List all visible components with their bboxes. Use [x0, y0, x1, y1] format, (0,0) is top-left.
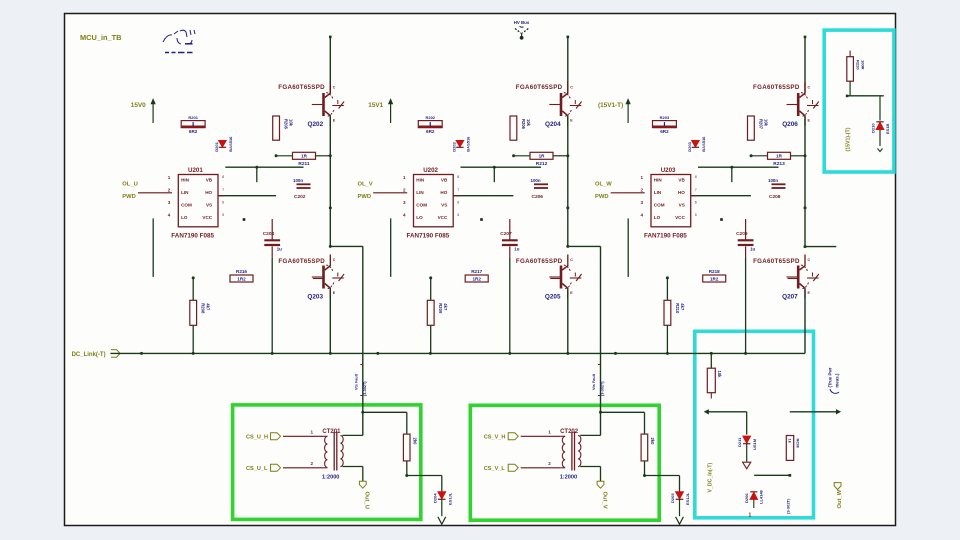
- svg-text:C: C: [570, 258, 573, 262]
- svg-text:4: 4: [403, 213, 406, 218]
- wire net arrow right: [790, 410, 840, 414]
- svg-text:1u: 1u: [277, 247, 282, 252]
- svg-text:10k: 10k: [289, 119, 294, 127]
- highlight box DC link sense region: [695, 331, 814, 518]
- svg-text:7: 7: [457, 188, 459, 192]
- wire HO: [691, 195, 751, 197]
- svg-text:10k: 10k: [526, 119, 531, 127]
- svg-text:U203: U203: [661, 167, 676, 174]
- transistor Q205: [516, 255, 582, 301]
- svg-text:1R2: 1R2: [237, 276, 246, 281]
- svg-text:MCU_in_TB: MCU_in_TB: [80, 33, 121, 42]
- svg-text:7: 7: [222, 188, 224, 192]
- svg-text:(15V1)-(T): (15V1)-(T): [846, 127, 852, 151]
- supply HV_BUS: [514, 20, 530, 39]
- svg-text:LIN: LIN: [181, 190, 189, 195]
- svg-text:C: C: [808, 86, 811, 90]
- svg-text:Q204: Q204: [545, 121, 561, 128]
- wire to clamp diode: [645, 476, 680, 492]
- svg-text:R217: R217: [471, 269, 482, 274]
- svg-text:VB: VB: [678, 177, 685, 182]
- svg-text:5: 5: [695, 213, 697, 217]
- svg-text:DC_Link(-T): DC_Link(-T): [72, 352, 106, 358]
- svg-text:1R2: 1R2: [472, 276, 481, 281]
- junction dot: [720, 218, 723, 221]
- svg-text:8: 8: [457, 175, 459, 179]
- wire net arrow left: [705, 410, 747, 435]
- svg-text:8: 8: [695, 175, 697, 179]
- wire: [846, 95, 884, 121]
- resistor burden CT202: [641, 434, 655, 477]
- highlight box CT201 region: [233, 405, 421, 520]
- svg-text:CS_V_L: CS_V_L: [484, 466, 506, 472]
- capacitor C209 vcc: [736, 219, 755, 353]
- svg-text:R211: R211: [298, 161, 310, 167]
- svg-text:3: 3: [168, 200, 171, 205]
- svg-text:4k7: 4k7: [206, 303, 211, 311]
- svg-text:R216: R216: [236, 269, 247, 274]
- supply 15V arrow: [131, 100, 155, 124]
- svg-text:2: 2: [548, 461, 551, 466]
- net stub labels: [354, 365, 367, 397]
- svg-text:100R: 100R: [861, 60, 866, 70]
- wire emitter Q206: [804, 117, 806, 247]
- svg-text:HO: HO: [440, 190, 447, 195]
- resistor R208: [190, 276, 211, 353]
- net flag Out_W: [834, 483, 843, 509]
- svg-text:D211: D211: [737, 437, 742, 447]
- svg-text:VCC: VCC: [202, 215, 212, 220]
- resistor R221: [707, 353, 722, 398]
- svg-text:100n: 100n: [768, 178, 778, 183]
- svg-text:D204: D204: [432, 493, 437, 503]
- svg-text:COM: COM: [181, 203, 192, 208]
- resistor R201: [181, 115, 205, 134]
- svg-text:R213: R213: [773, 161, 785, 167]
- svg-text:3: 3: [403, 200, 406, 205]
- net label PWD: [358, 193, 408, 200]
- svg-text:HIN: HIN: [654, 177, 663, 182]
- wire LIN input: [373, 192, 407, 194]
- svg-text:FAN7190 F085: FAN7190 F085: [644, 232, 687, 239]
- wire secondary bottom: [343, 467, 363, 482]
- svg-text:15V0: 15V0: [131, 102, 146, 109]
- svg-text:1: 1: [749, 513, 752, 519]
- svg-text:6: 6: [222, 200, 224, 204]
- svg-text:D202: D202: [451, 141, 456, 151]
- wire secondary top: [343, 434, 363, 436]
- svg-text:15V1: 15V1: [368, 102, 383, 109]
- junction: [804, 154, 807, 157]
- transistor Q207: [753, 255, 819, 301]
- svg-text:1: 1: [548, 430, 551, 435]
- svg-text:FGA60T65SPD: FGA60T65SPD: [278, 258, 325, 265]
- svg-text:R210: R210: [675, 303, 680, 314]
- capacitor C206 bootstrap: [531, 178, 549, 200]
- svg-text:LO: LO: [181, 215, 188, 220]
- svg-text:meas.): meas.): [835, 373, 840, 387]
- svg-text:CS_V_H: CS_V_H: [484, 435, 506, 441]
- resistor R220: [847, 51, 866, 96]
- resistor R205: [273, 116, 294, 140]
- svg-text:V_DC_In(-T): V_DC_In(-T): [708, 463, 714, 493]
- supply arrow down: [676, 517, 684, 524]
- svg-text:US1M: US1M: [752, 438, 757, 450]
- svg-text:1: 1: [311, 430, 314, 435]
- resistor R217 gate low: [465, 269, 561, 282]
- resistor R216 gate low: [230, 269, 324, 282]
- net flag Out_U: [359, 481, 369, 509]
- svg-text:D206: D206: [744, 493, 749, 503]
- transistor Q206: [753, 82, 819, 128]
- svg-text:CS_U_L: CS_U_L: [246, 466, 268, 472]
- diode D204: [432, 492, 452, 516]
- svg-text:4k7: 4k7: [680, 303, 685, 311]
- diode D205: [670, 492, 690, 516]
- svg-text:C209: C209: [736, 231, 748, 237]
- wire secondary bottom: [580, 467, 600, 482]
- wire secondary top: [580, 434, 600, 436]
- wire HO: [453, 195, 513, 197]
- svg-text:Q202: Q202: [308, 121, 324, 128]
- svg-text:Q203: Q203: [307, 294, 323, 301]
- wire HV bus drop channel 1: [329, 36, 332, 93]
- wire VB: [698, 166, 779, 183]
- svg-text:PWD: PWD: [122, 194, 136, 200]
- svg-text:6: 6: [695, 200, 697, 204]
- svg-text:R202: R202: [425, 115, 435, 120]
- svg-text:6: 6: [457, 200, 459, 204]
- net label PWD: [122, 193, 172, 200]
- svg-text:CS_U_H: CS_U_H: [246, 435, 268, 441]
- wire HO: [218, 195, 276, 197]
- svg-text:HIN: HIN: [416, 177, 425, 182]
- net flag Out_V: [597, 481, 607, 508]
- diode D212: [744, 489, 763, 518]
- resistor R213 gate: [750, 152, 805, 167]
- bus junction dots: [140, 352, 747, 355]
- svg-text:Out_W: Out_W: [837, 489, 843, 508]
- svg-text:Q205: Q205: [545, 294, 561, 301]
- svg-text:FGA60T65SPD: FGA60T65SPD: [516, 258, 563, 265]
- svg-text:C: C: [808, 258, 811, 262]
- wire COM stub: [627, 218, 629, 277]
- svg-text:R205: R205: [284, 119, 289, 130]
- op-amp U202 driver ic U202: [403, 167, 459, 239]
- svg-text:VCC: VCC: [438, 215, 448, 220]
- svg-text:2: 2: [640, 188, 643, 193]
- wire LIN input: [138, 192, 172, 194]
- svg-text:CT202: CT202: [560, 429, 579, 435]
- net stub labels: [592, 365, 605, 397]
- svg-text:VCC: VCC: [675, 215, 685, 220]
- svg-text:U202: U202: [423, 167, 438, 174]
- svg-text:C: C: [333, 258, 336, 262]
- svg-text:R207: R207: [758, 119, 763, 130]
- svg-text:1:2000: 1:2000: [560, 475, 577, 481]
- svg-text:COM: COM: [416, 203, 427, 208]
- wire DC link bus: [110, 352, 805, 354]
- op-amp U203 driver ic U203: [640, 167, 696, 239]
- svg-text:C202: C202: [294, 194, 306, 200]
- svg-text:VB: VB: [206, 177, 213, 182]
- svg-text:Q207: Q207: [782, 294, 798, 301]
- svg-text:R208: R208: [201, 303, 206, 314]
- svg-text:OL_V: OL_V: [358, 182, 373, 188]
- op-amp U201 driver ic U201: [168, 167, 224, 239]
- svg-text:C207: C207: [500, 231, 512, 237]
- diode D201: [214, 136, 233, 152]
- svg-text:LL4148: LL4148: [759, 489, 764, 504]
- svg-text:1:2000: 1:2000: [322, 475, 339, 481]
- svg-text:R212: R212: [536, 161, 548, 167]
- svg-text:LIN: LIN: [654, 190, 662, 195]
- supply 15V arrow: [598, 100, 630, 124]
- svg-text:(3-302T): (3-302T): [786, 498, 791, 514]
- wire emitter stub right: [804, 245, 837, 248]
- svg-text:R206: R206: [521, 119, 526, 130]
- capacitor C207 vcc: [500, 219, 519, 353]
- svg-text:R220: R220: [856, 60, 861, 70]
- svg-text:1R2: 1R2: [710, 276, 719, 281]
- wire VB: [225, 166, 303, 183]
- highlight box CT202 region: [470, 405, 659, 520]
- wire emitter Q204: [567, 117, 569, 247]
- net label DC_Link(-T): [72, 350, 121, 358]
- svg-text:100n: 100n: [531, 178, 541, 183]
- svg-text:2: 2: [168, 188, 171, 193]
- svg-text:8: 8: [222, 175, 224, 179]
- svg-text:FGA60T65SPD: FGA60T65SPD: [753, 84, 800, 91]
- svg-text:1u: 1u: [750, 247, 755, 252]
- junction dot: [480, 218, 483, 221]
- svg-text:1R: 1R: [539, 154, 546, 159]
- resistor R210: [664, 276, 685, 353]
- resistor burden CT201: [403, 434, 417, 477]
- svg-text:LIN: LIN: [416, 190, 424, 195]
- resistor R209: [427, 276, 448, 353]
- capacitor C204 vcc: [263, 219, 282, 353]
- svg-text:PWD: PWD: [358, 194, 372, 200]
- supply 15V arrow: [368, 100, 392, 124]
- resistor R211 gate: [275, 152, 331, 167]
- svg-text:FGA60T65SPD: FGA60T65SPD: [516, 84, 563, 91]
- svg-text:1u: 1u: [514, 247, 519, 252]
- resistor R202: [418, 115, 442, 134]
- svg-text:LO: LO: [416, 215, 423, 220]
- svg-text:4: 4: [640, 213, 643, 218]
- svg-text:COM: COM: [654, 203, 665, 208]
- svg-text:VS: VS: [441, 203, 447, 208]
- svg-text:1R: 1R: [776, 154, 783, 159]
- svg-text:ES1B: ES1B: [885, 123, 890, 134]
- resistor R203: [653, 115, 677, 134]
- wire to clamp diode: [407, 476, 442, 492]
- wire HV bus drop channel 3: [804, 36, 807, 93]
- svg-text:D210: D210: [871, 123, 876, 133]
- svg-text:5: 5: [457, 213, 459, 217]
- svg-text:Q206: Q206: [782, 121, 798, 128]
- wire COM stub: [390, 218, 392, 277]
- svg-text:PWD: PWD: [595, 194, 609, 200]
- wire emitter Q207: [804, 290, 806, 354]
- wire emitter Q205: [567, 290, 569, 354]
- capacitor C208 bootstrap: [768, 178, 786, 200]
- wire COM stub: [152, 218, 154, 277]
- svg-text:FGA60T65SPD: FGA60T65SPD: [753, 258, 800, 265]
- svg-text:4: 4: [168, 213, 171, 218]
- svg-text:3: 3: [640, 200, 643, 205]
- svg-text:2: 2: [403, 188, 406, 193]
- svg-text:HO: HO: [205, 190, 212, 195]
- wire to current transformer: [329, 245, 363, 436]
- diode D202: [451, 136, 470, 152]
- svg-text:OL_U: OL_U: [122, 182, 137, 188]
- svg-text:FAN7190 F085: FAN7190 F085: [407, 232, 450, 239]
- junction: [599, 411, 602, 414]
- svg-text:ES1JL: ES1JL: [447, 492, 452, 505]
- resistor R212 gate: [512, 152, 568, 167]
- svg-text:10k: 10k: [763, 119, 768, 127]
- wire VB: [461, 166, 542, 183]
- svg-text:6R2: 6R2: [660, 129, 669, 134]
- svg-text:BAS516: BAS516: [228, 136, 233, 152]
- wire: [754, 474, 791, 477]
- svg-text:VB: VB: [441, 177, 448, 182]
- wire to current transformer: [566, 245, 600, 436]
- supply arrow down: [438, 517, 446, 524]
- diode D203: [687, 136, 706, 152]
- transformer CT201: [283, 429, 343, 481]
- resistor R222: [786, 436, 800, 461]
- svg-text:Vts Fault: Vts Fault: [592, 373, 596, 390]
- svg-text:1: 1: [403, 175, 406, 180]
- resistor R218 gate low: [703, 269, 799, 282]
- capacitor C202 bootstrap: [293, 178, 311, 200]
- svg-text:OL_W: OL_W: [595, 182, 612, 188]
- svg-text:5: 5: [222, 213, 224, 217]
- net label PWD: [595, 193, 645, 200]
- junction: [361, 411, 364, 414]
- transformer CT202: [521, 429, 581, 481]
- svg-text:C208: C208: [769, 194, 781, 200]
- svg-text:100n: 100n: [293, 178, 303, 183]
- svg-text:R203: R203: [660, 115, 670, 120]
- svg-text:C204: C204: [263, 231, 275, 237]
- highlight box bootstrap charge region: [824, 30, 894, 172]
- svg-text:2k0: 2k0: [650, 438, 655, 446]
- svg-text:D203: D203: [687, 141, 692, 151]
- wire to burden resistor: [601, 412, 645, 434]
- diode D210: [871, 122, 891, 152]
- svg-text:ES1JL: ES1JL: [685, 492, 690, 505]
- svg-text:(3-302T): (3-302T): [363, 381, 367, 396]
- wire HV bus drop channel 2: [567, 36, 570, 93]
- svg-text:VS: VS: [206, 203, 212, 208]
- junction: [566, 154, 569, 157]
- svg-text:6R2: 6R2: [189, 129, 198, 134]
- wire emitter Q203: [329, 290, 331, 354]
- svg-text:R201: R201: [188, 115, 198, 120]
- svg-text:HIN: HIN: [181, 177, 190, 182]
- svg-text:R218: R218: [709, 269, 720, 274]
- svg-text:R209: R209: [438, 303, 443, 314]
- svg-text:1k: 1k: [788, 439, 793, 444]
- resistor R206: [510, 116, 531, 140]
- svg-text:C206: C206: [532, 194, 544, 200]
- logo sketch: [163, 30, 195, 53]
- transistor Q204: [516, 82, 582, 128]
- svg-text:HO: HO: [678, 190, 685, 195]
- svg-text:BAS516: BAS516: [465, 136, 470, 152]
- svg-text:CT201: CT201: [322, 429, 341, 435]
- svg-text:7: 7: [695, 188, 697, 192]
- svg-text:D205: D205: [670, 493, 675, 503]
- svg-text:FGA60T65SPD: FGA60T65SPD: [278, 84, 325, 91]
- svg-text:LO: LO: [654, 215, 661, 220]
- svg-text:1: 1: [168, 175, 171, 180]
- svg-text:VS: VS: [679, 203, 685, 208]
- annotation True Pwr: [828, 367, 840, 393]
- svg-text:(True Pwr: (True Pwr: [828, 367, 833, 387]
- svg-text:Out_U: Out_U: [364, 492, 370, 509]
- svg-text:Vts Fault: Vts Fault: [354, 373, 358, 390]
- svg-text:D201: D201: [214, 141, 219, 151]
- svg-text:1: 1: [640, 175, 643, 180]
- svg-text:1R: 1R: [301, 154, 308, 159]
- wire LIN input: [611, 192, 645, 194]
- svg-text:2: 2: [311, 461, 314, 466]
- supply arrow down open: [743, 462, 751, 469]
- resistor R207: [748, 116, 769, 140]
- wire emitter Q202: [329, 117, 331, 247]
- diode D211: [737, 436, 757, 461]
- svg-text:U201: U201: [188, 167, 203, 174]
- junction dot: [243, 218, 246, 221]
- svg-text:HV Bus: HV Bus: [514, 20, 530, 25]
- svg-text:C: C: [570, 86, 573, 90]
- junction: [329, 154, 332, 157]
- svg-text:Out_V: Out_V: [601, 492, 607, 509]
- svg-text:2k0: 2k0: [412, 438, 417, 446]
- svg-text:6R2: 6R2: [426, 129, 435, 134]
- svg-text:4k7: 4k7: [443, 303, 448, 311]
- svg-text:BAS516: BAS516: [701, 136, 706, 152]
- transistor Q202: [278, 82, 344, 128]
- svg-text:(15V1-T): (15V1-T): [598, 102, 623, 109]
- wire to burden resistor: [363, 412, 407, 434]
- transistor Q203: [278, 255, 344, 301]
- svg-text:10k: 10k: [717, 371, 722, 379]
- svg-text:FAN7190 F085: FAN7190 F085: [171, 232, 214, 239]
- svg-text:C: C: [333, 86, 336, 90]
- svg-text:(3-302T): (3-302T): [601, 381, 605, 396]
- svg-text:RCM: RCM: [796, 439, 801, 449]
